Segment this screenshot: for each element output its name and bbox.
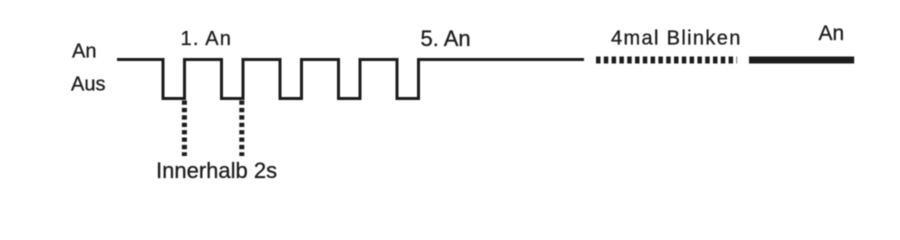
- svg-text:Aus: Aus: [71, 74, 105, 96]
- svg-text:An: An: [72, 41, 96, 63]
- svg-text:5. An: 5. An: [421, 26, 471, 51]
- label Aus (left, low level): [71, 74, 105, 96]
- label An (left, high level): [72, 41, 96, 63]
- waveform signal trace: high An level with 5 low Aus pulses: [117, 60, 584, 99]
- solid An line (right): [749, 57, 854, 64]
- svg-text:4mal Blinken: 4mal Blinken: [611, 28, 742, 50]
- label An (right): [819, 22, 845, 45]
- svg-text:Innerhalb 2s: Innerhalb 2s: [156, 158, 277, 183]
- vertical dotted marker at 1st rising edge: [182, 101, 187, 157]
- label 5. An: [421, 26, 471, 51]
- svg-text:An: An: [819, 22, 845, 45]
- label Innerhalb 2s: [156, 158, 277, 183]
- label 1. An: [181, 28, 233, 50]
- svg-text:1. An: 1. An: [181, 28, 233, 50]
- vertical dotted marker at 2nd rising edge: [239, 101, 244, 157]
- dashed blink line (4mal Blinken): [596, 57, 737, 64]
- label 4mal Blinken: [611, 28, 742, 50]
